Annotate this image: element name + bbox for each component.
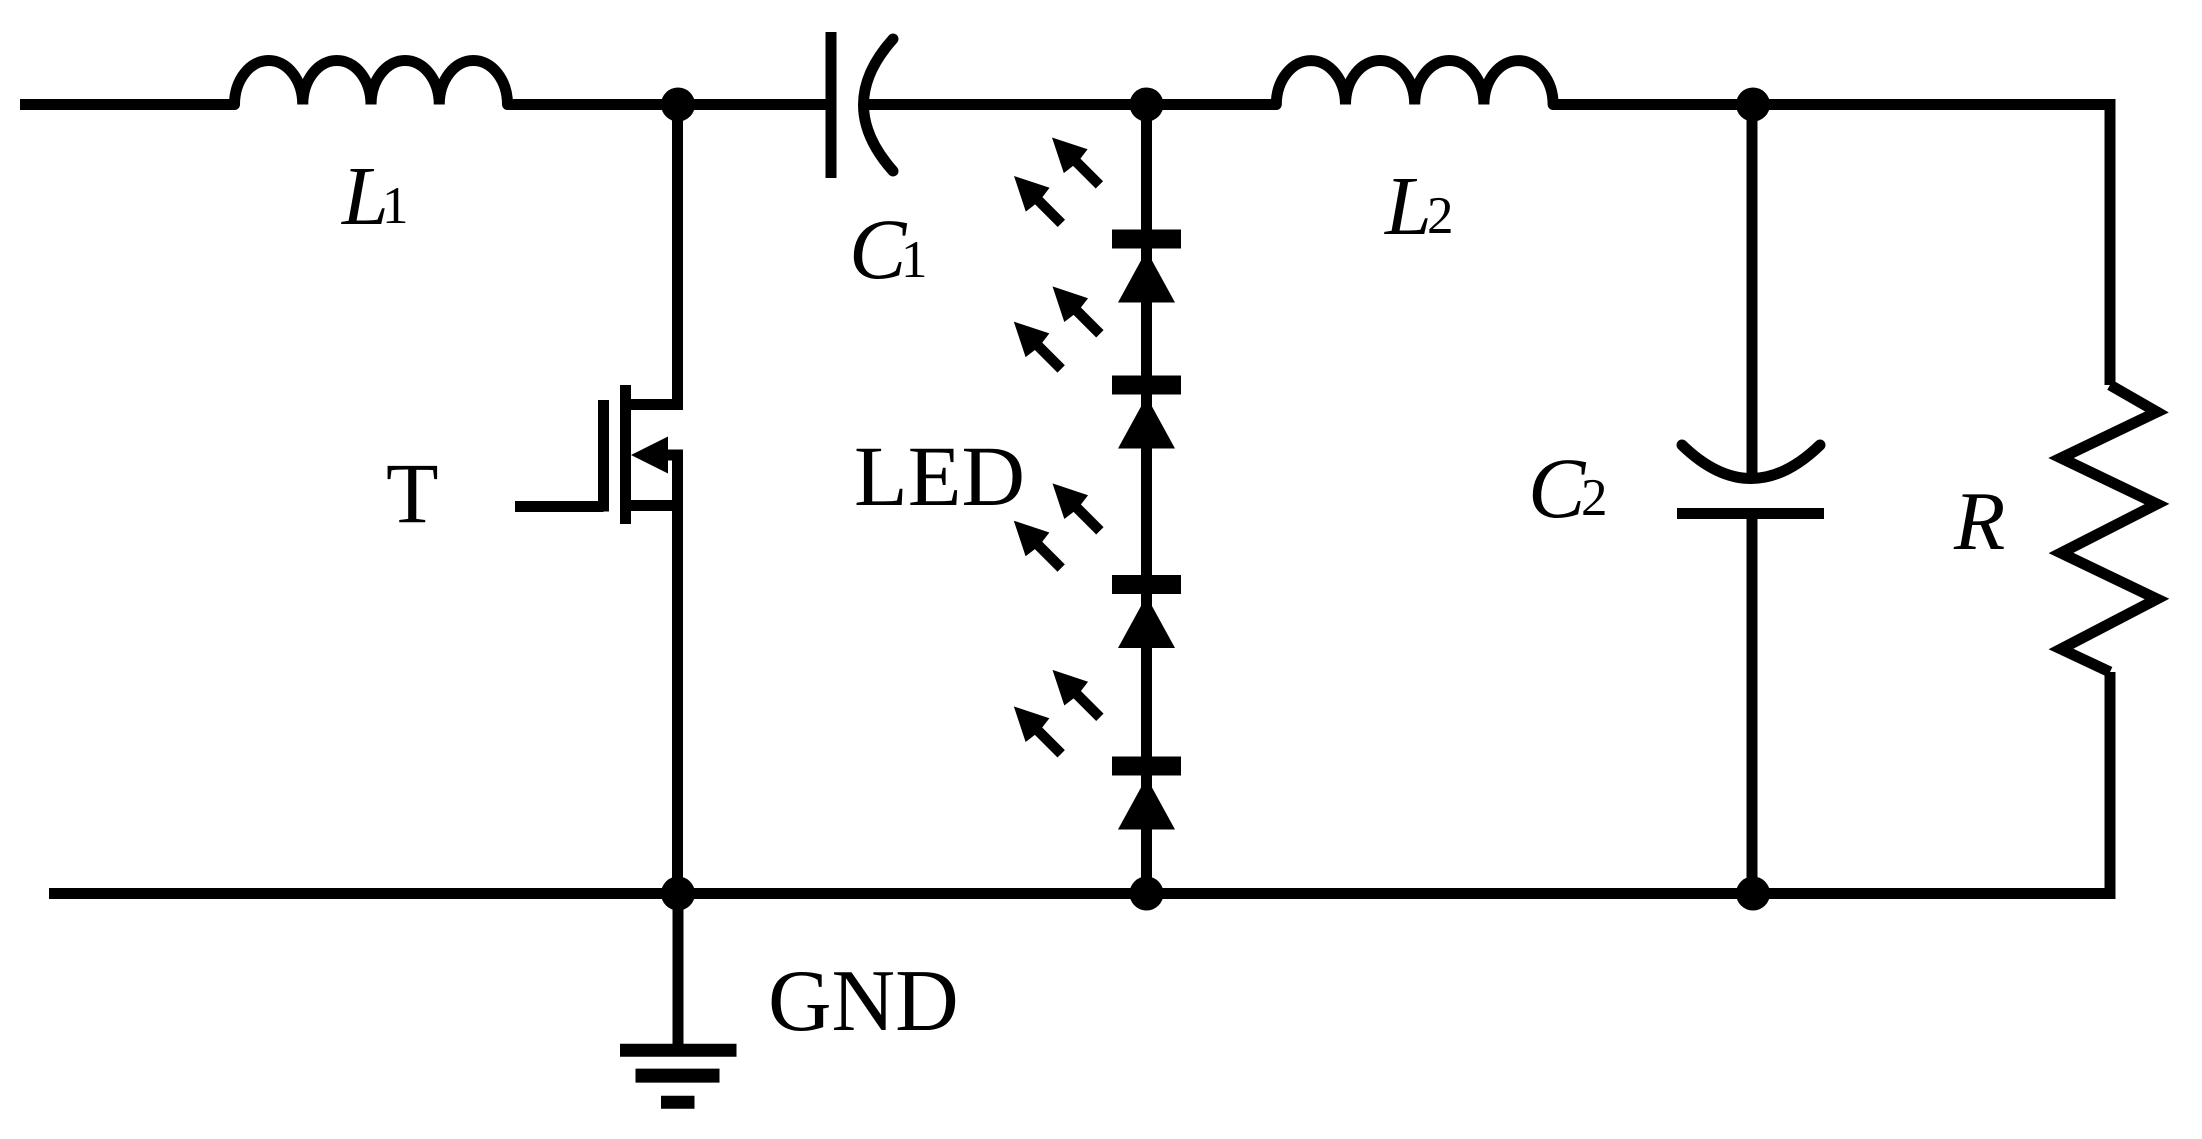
LED D4 cathode bar xyxy=(1112,757,1181,776)
LED D1 cathode bar xyxy=(1112,230,1181,249)
svg-text:C: C xyxy=(849,201,908,297)
svg-text:2: 2 xyxy=(1427,187,1454,245)
LED emission arrow 1b xyxy=(1002,164,1073,235)
node B (LED top junction) xyxy=(1130,88,1164,122)
wire: node B to L2 xyxy=(1147,99,1277,110)
LED emission arrow 2b xyxy=(1002,310,1073,381)
transistor T body arrow xyxy=(631,437,668,474)
wire: node C to output corner xyxy=(1753,99,2110,110)
LED D3 triangle xyxy=(1118,596,1175,648)
resistor R zigzag xyxy=(2061,385,2157,672)
node F (C2 bottom junction) xyxy=(1736,877,1770,911)
wire: bottom net xyxy=(49,888,2110,899)
svg-text:T: T xyxy=(386,445,439,541)
transistor T source lead xyxy=(626,500,684,511)
capacitor C1 flat plate xyxy=(826,32,837,178)
LED D2 cathode bar xyxy=(1112,376,1181,395)
transistor T source wire down xyxy=(672,455,683,894)
capacitor C2 bottom wire xyxy=(1747,514,1758,894)
transistor T (MOSFET) drain wire xyxy=(672,105,683,405)
capacitor C2 curved plate xyxy=(1682,445,1820,479)
node A (drain junction) xyxy=(661,88,695,122)
capacitor C2 flat plate xyxy=(1677,508,1824,519)
ground wire xyxy=(673,894,684,1051)
ground bar 3 xyxy=(661,1096,695,1109)
LED D3 cathode bar xyxy=(1112,575,1181,594)
transistor T gate lead xyxy=(515,501,604,512)
resistor R bottom wire xyxy=(2105,672,2116,899)
LED emission arrow 1a xyxy=(1040,126,1111,197)
wire: top net, input to C1 left plate xyxy=(20,99,235,110)
inductor L2 xyxy=(1276,61,1553,105)
resistor R right branch top wire xyxy=(2105,99,2116,385)
svg-text:GND: GND xyxy=(768,953,959,1050)
LED D4 triangle xyxy=(1118,778,1175,830)
wire: L1 to C1 xyxy=(508,99,826,110)
LED string wire xyxy=(1141,105,1152,894)
node E (LED bottom junction) xyxy=(1130,877,1164,911)
LED emission arrow 2a xyxy=(1041,275,1112,346)
svg-text:1: 1 xyxy=(382,177,409,235)
LED emission arrow 3a xyxy=(1041,472,1112,543)
svg-text:2: 2 xyxy=(1581,469,1608,527)
inductor L1 xyxy=(235,60,508,104)
transistor T gate bar xyxy=(598,400,609,512)
svg-text:LED: LED xyxy=(854,428,1025,524)
svg-text:R: R xyxy=(1953,475,2005,568)
svg-text:L: L xyxy=(1384,160,1432,253)
wire: C1 to node B xyxy=(864,99,1147,110)
node C (C2 top junction) xyxy=(1736,88,1770,122)
svg-text:C: C xyxy=(1528,440,1587,536)
ground bar 2 xyxy=(636,1069,720,1083)
transistor T body line xyxy=(668,450,683,461)
capacitor C2 top wire xyxy=(1747,105,1758,479)
transistor T drain lead xyxy=(626,399,684,410)
capacitor C1 curved plate xyxy=(864,39,894,171)
LED D2 triangle xyxy=(1118,397,1175,449)
svg-text:1: 1 xyxy=(901,231,928,289)
LED emission arrow 3b xyxy=(1002,509,1073,580)
LED emission arrow 4a xyxy=(1041,658,1112,729)
LED emission arrow 4b xyxy=(1002,695,1073,766)
wire: L2 to node C xyxy=(1553,99,1753,110)
transistor T channel bar xyxy=(620,385,631,524)
LED D1 triangle xyxy=(1118,251,1175,303)
node D (source/ground junction) xyxy=(661,877,695,911)
ground bar 1 xyxy=(620,1044,737,1057)
